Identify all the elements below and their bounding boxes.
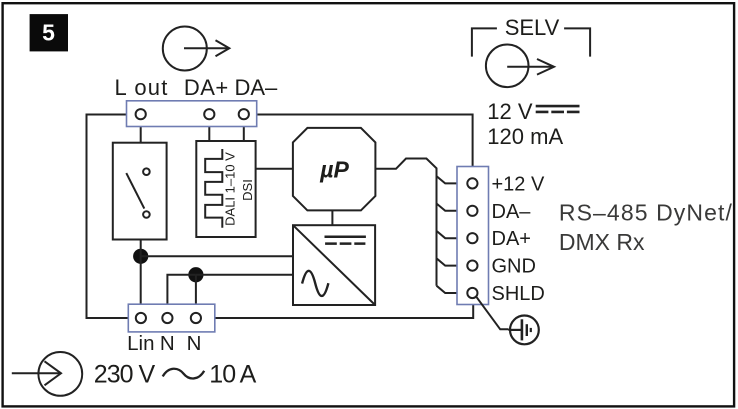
svg-text:DA–: DA– <box>492 201 532 223</box>
AC tilde symbol <box>163 369 205 379</box>
svg-text:12 V: 12 V <box>487 99 533 124</box>
svg-text:+12 V: +12 V <box>492 173 545 195</box>
AC/DC converter U2 <box>293 225 375 305</box>
relay contact lower <box>143 211 150 218</box>
square wave symbol <box>205 149 222 228</box>
svg-text:RS–485 DyNet/: RS–485 DyNet/ <box>559 200 733 226</box>
terminal L out <box>136 109 146 119</box>
wire: DALI block to microprocessor <box>256 168 293 170</box>
SELV bracket left <box>472 28 497 56</box>
SELV bracket right <box>564 28 590 56</box>
microprocessor uP <box>293 128 376 210</box>
svg-text:10 A: 10 A <box>209 361 256 389</box>
svg-text:µP: µP <box>319 157 349 183</box>
svg-text:120 mA: 120 mA <box>487 124 563 149</box>
wire: device top edge left of top terminal block <box>87 114 127 116</box>
wire: DA+ stub to DALI block <box>208 114 210 141</box>
wire: junction to converter AC input lower <box>196 274 293 276</box>
junction dot middle <box>188 267 203 282</box>
right terminal block <box>457 167 489 305</box>
wire: N2 terminal to junction <box>195 275 197 312</box>
SELV output arrow symbol <box>486 45 554 88</box>
wire: bus branch to DA+ <box>437 231 467 238</box>
terminal N2 <box>191 313 201 323</box>
DC symbol dashed line <box>325 242 365 245</box>
wire: device bottom edge right of bottom terminal block up to SHLD block <box>215 305 473 319</box>
terminal DA+ <box>204 109 214 119</box>
svg-text:DA+: DA+ <box>184 75 229 100</box>
svg-text:DMX Rx: DMX Rx <box>559 229 645 255</box>
svg-text:N: N <box>187 332 202 355</box>
relay K1 <box>113 143 167 240</box>
svg-text:DA–: DA– <box>235 75 279 100</box>
wire: junction to converter AC input upper <box>141 255 293 257</box>
svg-text:DALI 1–10 V: DALI 1–10 V <box>222 152 237 226</box>
svg-text:5: 5 <box>42 20 55 46</box>
relay lever <box>126 173 144 209</box>
svg-text:230 V: 230 V <box>94 361 156 389</box>
wire: N terminal to junction <box>167 275 196 312</box>
svg-text:SHLD: SHLD <box>492 283 545 305</box>
wire: microprocessor to terminal bus <box>375 159 436 286</box>
wire: relay to Lin terminal <box>140 240 142 313</box>
wire: SHLD to functional earth <box>477 297 509 329</box>
converter diagonal <box>293 225 375 305</box>
relay contact upper <box>143 168 150 175</box>
bottom terminal block <box>128 304 215 332</box>
wire: L out stub to relay <box>140 114 142 143</box>
svg-text:SELV: SELV <box>505 15 560 40</box>
svg-text:Lin: Lin <box>127 332 154 355</box>
terminal DA- out <box>467 206 477 216</box>
AC sine symbol <box>302 271 328 296</box>
svg-text:GND: GND <box>492 256 536 278</box>
terminal GND <box>467 261 477 271</box>
svg-text:N: N <box>160 332 175 355</box>
svg-text:DA+: DA+ <box>492 228 531 250</box>
DC symbol solid line <box>536 105 580 108</box>
earth bar long <box>521 319 524 340</box>
step number badge 5 <box>30 14 68 51</box>
DC symbol solid line <box>325 235 366 238</box>
terminal Lin <box>136 313 146 323</box>
wire: microprocessor to AC/DC converter <box>331 210 333 225</box>
mains input arrow symbol <box>12 352 82 396</box>
top terminal block <box>127 101 257 127</box>
DC symbol dashed line <box>536 111 580 114</box>
wire: bus branch to +12V <box>437 176 467 183</box>
wire: device top edge right of top terminal block to +12V terminal <box>257 115 473 167</box>
wire: bus branch to GND <box>437 258 467 265</box>
svg-text:L out: L out <box>114 75 168 100</box>
lamp output arrow symbol <box>163 27 230 71</box>
wire: bus branch to SHLD <box>437 286 467 293</box>
functional earth symbol <box>509 316 539 345</box>
terminal +12V <box>467 178 477 188</box>
wire: device bottom edge left of bottom terminal block <box>86 317 129 319</box>
earth bar medium <box>526 324 528 336</box>
terminal DA+ out <box>467 233 477 243</box>
junction dot left <box>133 249 148 264</box>
terminal N1 <box>162 313 172 323</box>
earth bar short <box>530 328 532 332</box>
DALI / DSI interface block <box>196 141 255 237</box>
wire: device left edge <box>86 114 88 319</box>
wire: DA- stub to DALI block <box>243 114 245 141</box>
terminal DA- <box>239 109 249 119</box>
wire: bus branch to DA- <box>437 204 467 211</box>
terminal SHLD <box>467 288 477 298</box>
svg-text:DSI: DSI <box>240 179 255 201</box>
